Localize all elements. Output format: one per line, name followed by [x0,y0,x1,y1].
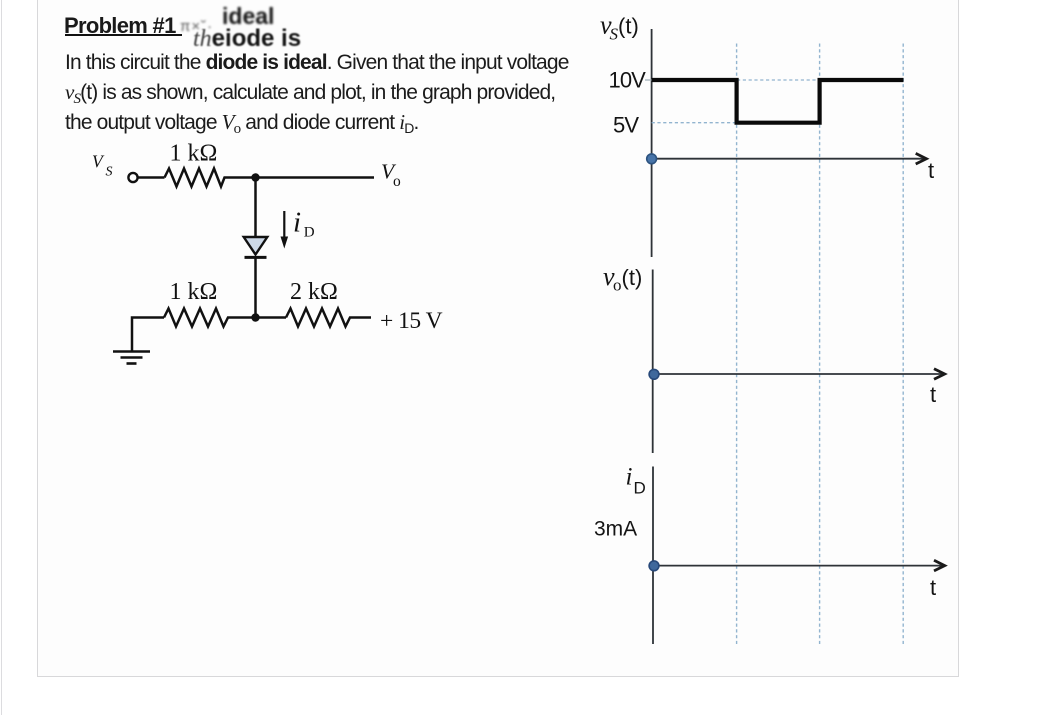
svg-text:o: o [393,173,401,190]
graph 1 dashed 10V level line [737,79,903,81]
svg-text:10V: 10V [609,68,647,93]
resistor R2 1 kOhm (bottom left) [164,309,231,327]
graph 1 dashed 5V level line [652,122,737,124]
svg-text:i: i [626,464,633,491]
graph 1 t label [928,158,934,183]
graph 3 origin dot [649,561,659,571]
svg-text:(t): (t) [618,14,639,39]
svg-text:D: D [634,479,646,498]
graph 2 y-axis [652,270,654,454]
graph 3 t-axis with arrow [653,560,945,571]
graph 1 axis label vs(t) [600,11,639,44]
wire terminal to R1 [138,176,165,179]
svg-text:1 kΩ: 1 kΩ [170,279,218,305]
svg-text:t: t [930,575,936,600]
graph 2 origin dot [649,369,659,379]
graph 1 y-axis [651,29,653,257]
resistor R1 1 kOhm (top) [165,169,227,187]
node B junction dot [251,313,259,321]
graph 1 10V tick label [609,68,652,93]
wire node A down to diode [254,178,257,238]
value label 1 kOhm (bottom) [170,279,218,305]
title Problem #1 [64,13,176,39]
wire ground corner to R2 [132,318,164,352]
wire R2 to node B [231,316,286,319]
svg-text:t: t [930,382,936,407]
supply label +15V [380,308,443,334]
wire diode cathode to node B [254,257,257,317]
graph 3 3mA label [594,518,637,541]
svg-text:+ 15 V: + 15 V [380,308,443,334]
svg-text:5V: 5V [613,112,639,137]
resistor R3 2 kOhm [286,309,353,327]
label iD [293,207,315,241]
svg-text:S: S [106,164,113,179]
graph 1 5V tick label [613,112,639,137]
dashed time gridline t1 [736,44,738,645]
problem statement paragraph [65,49,569,137]
svg-text:D: D [304,225,315,241]
svg-text:3mA: 3mA [594,518,637,541]
node A junction dot [251,173,259,181]
label VS source [92,152,113,180]
graph 1 t-axis with arrow [652,153,927,164]
graph 2 t label [930,382,936,407]
wire R3 to +15V supply [353,316,371,319]
input terminal circle [128,173,137,182]
svg-text:V: V [92,152,105,172]
ghost smudged text: the diode is [193,25,301,53]
svg-text:1 kΩ: 1 kΩ [170,141,218,167]
dashed time gridline t2 [819,44,821,645]
graph 2 axis label vo(t) [603,262,642,295]
wire R1 to node A and to Vo [226,176,374,179]
svg-text:i: i [293,207,301,239]
ghost scribble [180,18,213,35]
title underline [65,34,182,36]
svg-text:2 kΩ: 2 kΩ [290,279,338,305]
graph 3 y-axis [652,467,654,645]
left screen edge line [1,0,2,715]
label Vo output [381,160,401,191]
svg-text:t: t [928,158,934,183]
graph 3 axis label iD [626,464,646,498]
value label 2 kOhm [290,279,338,305]
dashed time gridline t3 [902,44,904,645]
vs(t) waveform square pulse [652,80,904,123]
svg-text:o: o [613,276,622,295]
diode D1 (ideal, anode up) [244,237,268,257]
value label 1 kOhm (top) [170,141,218,167]
graph 3 t label [930,575,936,600]
svg-text:(t): (t) [622,265,643,290]
graph 2 t-axis with arrow [653,369,945,380]
ground symbol [113,352,150,364]
current arrow iD [281,211,289,249]
ghost smudged text: ideal [222,3,274,30]
graph 1 origin dot [647,154,657,164]
